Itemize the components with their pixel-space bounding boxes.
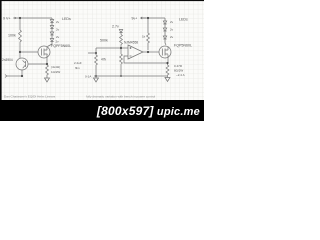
svg-text:LEDs: LEDs xyxy=(62,17,71,21)
svg-text:2v: 2v xyxy=(170,35,174,39)
svg-text:FQPF5N60L: FQPF5N60L xyxy=(51,44,71,48)
svg-text:2v: 2v xyxy=(170,20,174,24)
transistor Q2 BJT body xyxy=(16,58,28,70)
zener D4 2.7v xyxy=(119,30,122,35)
LED D7 xyxy=(163,36,166,45)
resistor R7 source right xyxy=(166,63,169,76)
ground mid xyxy=(94,76,99,82)
LED D6 xyxy=(163,28,166,36)
svg-text:9 V+: 9 V+ xyxy=(3,16,11,20)
svg-text:2v: 2v xyxy=(56,35,60,39)
LED D2 xyxy=(50,26,53,33)
wire: chain to Q1 drain xyxy=(48,42,53,47)
power arrow left xyxy=(13,17,16,19)
svg-text:fully dramatic variation with: fully dramatic variation with bench in p… xyxy=(86,95,155,99)
svg-text:500k: 500k xyxy=(100,39,108,43)
wire: output to gate xyxy=(143,51,159,53)
resistor R4 47k xyxy=(95,53,98,76)
resistor R2 source xyxy=(46,65,49,77)
input terminal xyxy=(5,75,7,78)
wire: input stub xyxy=(88,48,96,53)
svg-text:FQP5N60L: FQP5N60L xyxy=(174,44,192,48)
svg-text:0.47R: 0.47R xyxy=(174,64,183,68)
wire: right 9V rail xyxy=(143,17,165,19)
op-amp U1 xyxy=(128,45,143,59)
wire: left rail drop to resistor xyxy=(19,18,21,30)
resistor R6 pull-up xyxy=(147,18,150,50)
ground left circuit xyxy=(45,77,50,83)
svg-text:~2.4 A: ~2.4 A xyxy=(176,73,185,77)
svg-text:0-1A: 0-1A xyxy=(85,75,91,79)
wire: left 9V rail xyxy=(15,17,52,19)
wire: +input xyxy=(96,47,128,49)
transistor Q3 MOSFET body xyxy=(159,46,171,58)
svg-text:2v: 2v xyxy=(56,20,60,24)
transistor Q1 MOSFET body xyxy=(38,46,50,58)
resistor R3 500k xyxy=(120,35,123,46)
svg-text:film: film xyxy=(75,66,80,70)
LED D5 xyxy=(163,18,166,28)
wire: bottom rail right circuit xyxy=(94,75,167,77)
wire: feedback xyxy=(124,56,167,63)
resistor R1 100k xyxy=(19,30,22,44)
wire: R1 to gate node xyxy=(19,44,21,52)
wire: source to Q2 base xyxy=(28,63,47,65)
power arrow right xyxy=(141,17,147,19)
svg-text:LEDs: LEDs xyxy=(179,18,188,22)
svg-text:2v: 2v xyxy=(56,28,60,32)
junction dots xyxy=(19,17,169,77)
LED D4 xyxy=(50,39,53,42)
paper background xyxy=(0,0,204,121)
svg-text:[800x597] upic.me: [800x597] upic.me xyxy=(96,104,200,118)
border top xyxy=(0,0,204,1)
svg-text:100k: 100k xyxy=(8,34,16,38)
border left xyxy=(0,0,2,103)
wire: divider to +in node xyxy=(120,46,122,49)
wire: emitter rail xyxy=(7,75,22,77)
LED D3 xyxy=(50,32,53,39)
LED D1 xyxy=(50,20,53,26)
svg-text:2v: 2v xyxy=(170,28,174,32)
svg-text:9v+: 9v+ xyxy=(132,16,138,20)
wire: LED chain drop left xyxy=(51,18,53,20)
labels xyxy=(2,16,192,78)
wire: gate node to Q1 gate xyxy=(20,51,38,53)
svg-text:1k: 1k xyxy=(142,35,146,39)
svg-text:8Ω/2W: 8Ω/2W xyxy=(174,69,183,73)
wire: Q1 source down xyxy=(46,58,48,65)
bottom bar xyxy=(0,100,204,121)
svg-text:2.7v: 2.7v xyxy=(112,25,119,29)
svg-text:2.2uF: 2.2uF xyxy=(74,61,82,65)
svg-text:(4x4Ω): (4x4Ω) xyxy=(51,65,60,69)
svg-text:Dan Chatterjee's EQ/DI Helm Li: Dan Chatterjee's EQ/DI Helm Linears xyxy=(4,95,56,99)
svg-text:2n3904: 2n3904 xyxy=(2,58,13,62)
svg-text:47k: 47k xyxy=(101,58,107,62)
grid paper xyxy=(1,1,204,100)
svg-text:NJM4558: NJM4558 xyxy=(124,41,138,45)
resistor R5 divider lower xyxy=(120,48,123,76)
ground right xyxy=(165,76,170,82)
svg-text:1Ω/2W: 1Ω/2W xyxy=(51,70,60,74)
